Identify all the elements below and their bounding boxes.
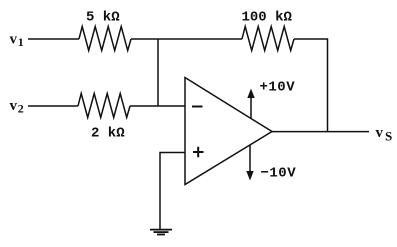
wire v1 to R1	[28, 38, 79, 40]
ground	[150, 230, 172, 235]
svg-text:100 kΩ: 100 kΩ	[242, 10, 293, 26]
wire op-amp output to vS	[272, 131, 369, 133]
op-amp inverting input marker (minus)	[192, 106, 203, 108]
positive supply arrow +10V	[247, 89, 254, 119]
wire R1 to R2 (top rail)	[131, 38, 242, 40]
resistor R1 5 kOhm	[79, 27, 131, 51]
svg-text:v1: v1	[10, 31, 24, 49]
wire non-inverting input to ground	[160, 153, 185, 230]
svg-text:2 kΩ: 2 kΩ	[91, 126, 125, 142]
svg-text:+10V: +10V	[260, 80, 296, 96]
op-amp U1	[185, 78, 272, 185]
svg-text:v2: v2	[10, 98, 24, 116]
negative supply arrow -10V	[246, 145, 253, 181]
resistor R2 100 kOhm	[242, 27, 294, 51]
svg-text:vS: vS	[376, 125, 393, 143]
wire summing junction to inverting input	[157, 39, 159, 106]
wire v2 to R3	[28, 105, 78, 107]
op-amp non-inverting input marker (plus)	[193, 147, 204, 158]
svg-text:5 kΩ: 5 kΩ	[86, 10, 120, 26]
wire R2 to output node	[294, 39, 328, 132]
wire R3 to inverting input	[130, 105, 185, 107]
resistor R3 2 kOhm	[78, 94, 130, 118]
svg-text:−10V: −10V	[261, 166, 297, 182]
